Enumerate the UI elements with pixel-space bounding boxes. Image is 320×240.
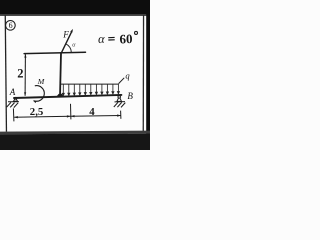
- svg-text:60: 60: [119, 31, 132, 46]
- svg-text:6: 6: [9, 21, 13, 30]
- svg-text:A: A: [9, 87, 16, 97]
- svg-text:q: q: [125, 70, 130, 80]
- distributed load q top line: [61, 83, 119, 85]
- svg-text:M: M: [37, 77, 45, 86]
- ground line A: [8, 101, 19, 103]
- svg-text:4: 4: [89, 106, 95, 118]
- label a = 60 deg: [98, 31, 138, 47]
- svg-text:α: α: [98, 32, 105, 46]
- hatching A: [7, 102, 19, 107]
- extension line middle: [70, 104, 72, 120]
- svg-text:2: 2: [17, 67, 23, 81]
- dimension line 2 (vertical): [24, 54, 26, 96]
- svg-text:B: B: [127, 91, 133, 101]
- extension line left (below A): [12, 108, 15, 121]
- svg-text:F: F: [62, 30, 69, 40]
- q pointer line: [119, 78, 125, 84]
- right page edge line: [143, 15, 145, 131]
- support B roller (circle + triangle): [117, 96, 122, 102]
- support A pin (circle + triangle): [13, 97, 18, 101]
- top black bar: [0, 0, 150, 15]
- top horizontal bar of frame: [24, 52, 85, 53]
- force F arrowhead: [70, 29, 73, 33]
- force F line: [61, 31, 72, 53]
- distributed load q arrows: [62, 84, 119, 96]
- left page edge line: [5, 15, 8, 131]
- extension line right (below B): [120, 111, 122, 119]
- dimension line 2,5: [14, 116, 70, 117]
- angle arc alpha: [66, 44, 72, 53]
- hatching B: [114, 102, 126, 107]
- vertical post: [60, 53, 61, 96]
- svg-text:2,5: 2,5: [30, 106, 44, 118]
- moment M arrowhead: [33, 101, 36, 103]
- dimension line 4: [71, 115, 121, 118]
- moment M arc: [34, 86, 45, 102]
- bottom page edge shadow: [0, 131, 150, 135]
- post foot: [56, 94, 64, 97]
- right black bar: [146, 13, 150, 151]
- ground line B: [115, 101, 126, 103]
- beam AB: [14, 95, 121, 98]
- circled figure number 6: [6, 21, 16, 31]
- bottom black bar: [0, 134, 150, 150]
